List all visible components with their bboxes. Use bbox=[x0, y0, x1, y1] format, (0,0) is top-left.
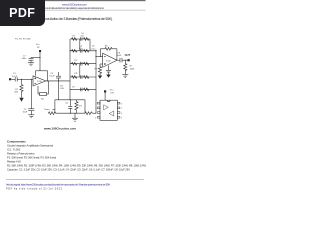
svg-text:R8: R8 bbox=[105, 45, 109, 47]
pin 3 bbox=[97, 112, 100, 114]
svg-text:www.100Circuitos.com: www.100Circuitos.com bbox=[62, 2, 88, 6]
capacitor row3 bbox=[79, 62, 81, 66]
ground under loop bbox=[74, 113, 76, 118]
svg-text:P2: P2 bbox=[75, 60, 78, 62]
supply pad IC bbox=[104, 90, 106, 92]
svg-text:Vcc:: Vcc: bbox=[36, 44, 40, 46]
right bus bbox=[95, 50, 97, 113]
svg-text:100K: 100K bbox=[130, 68, 135, 70]
svg-text:C4: C4 bbox=[81, 33, 85, 35]
svg-text:8: 8 bbox=[121, 103, 122, 105]
svg-text:C6: C6 bbox=[65, 103, 69, 105]
footer rule bbox=[6, 179, 144, 181]
svg-text:22n: 22n bbox=[79, 48, 83, 50]
resistor row4 left bbox=[72, 76, 78, 79]
IC body TL082 DIP-8 bbox=[100, 100, 117, 120]
svg-text:2: 2 bbox=[95, 108, 96, 110]
op-amp U1B bbox=[103, 53, 117, 67]
svg-text:Resistor ¼W:: Resistor ¼W: bbox=[7, 159, 21, 163]
svg-text:P1: P1 bbox=[73, 35, 76, 37]
ground under C7 bbox=[28, 62, 34, 64]
svg-text:C2: C2 bbox=[24, 109, 28, 111]
capacitor C4 bbox=[79, 37, 81, 41]
wire bus to inverting input bbox=[96, 56, 103, 58]
resistor row2 right bbox=[84, 49, 90, 52]
node row2 bbox=[69, 50, 70, 51]
svg-text:Circuito Integrado: Amplificad: Circuito Integrado: Amplificador Operaci… bbox=[7, 143, 53, 147]
pin 4 bbox=[97, 116, 100, 118]
non-inverting input wire bbox=[100, 63, 103, 65]
pin 1 bbox=[97, 102, 100, 104]
loop right vertical bbox=[84, 100, 86, 113]
loop left vertical bbox=[54, 100, 56, 113]
wire down to C2 bbox=[30, 79, 32, 109]
svg-text:P1: 50K lineal; P2: 50K lineal: P1: 50K lineal; P2: 50K lineal; P3: 50K … bbox=[7, 155, 56, 159]
row4 wire bbox=[70, 76, 96, 78]
svg-text:6: 6 bbox=[121, 113, 122, 115]
resistor row1 left bbox=[72, 38, 78, 41]
svg-text:OUT: OUT bbox=[125, 53, 131, 57]
node R1 bbox=[21, 79, 22, 80]
wire pad to IC bbox=[104, 93, 106, 101]
capacitor row4 bbox=[79, 75, 81, 79]
svg-text:Artículo original: https://www: Artículo original: https://www.100circui… bbox=[6, 183, 110, 186]
header top rule bbox=[5, 0, 146, 2]
resistor R9 bbox=[98, 67, 101, 74]
output node U1A bbox=[47, 80, 48, 81]
svg-text:Resistor o Potenciómetro:: Resistor o Potenciómetro: bbox=[7, 151, 35, 155]
svg-text:IC1:B: IC1:B bbox=[106, 60, 111, 62]
svg-text:C8: C8 bbox=[117, 52, 121, 54]
node C2 bbox=[31, 79, 32, 80]
ground under R7 bbox=[124, 72, 126, 75]
pin 2 bbox=[97, 107, 100, 109]
resistor R7 bbox=[124, 60, 126, 63]
row1 wire bbox=[70, 38, 90, 40]
svg-text:Vcc:: Vcc: bbox=[110, 90, 114, 92]
potentiometer P2 in loop bbox=[75, 102, 78, 112]
capacitor C3 0,1uF bbox=[58, 72, 60, 76]
svg-text:4: 4 bbox=[95, 118, 96, 120]
svg-text:P1, P2, P3: 50K: P1, P2, P3: 50K bbox=[15, 39, 31, 41]
svg-text:Los circuitos electrónicos más: Los circuitos electrónicos más variados … bbox=[45, 7, 105, 10]
svg-text:0,1u: 0,1u bbox=[91, 48, 96, 50]
svg-text:1: 1 bbox=[95, 103, 96, 105]
resistor row2 left bbox=[72, 49, 78, 52]
pin 7 bbox=[117, 107, 120, 109]
loop bottom wire with R5 bbox=[47, 112, 50, 114]
svg-text:C1: C1 bbox=[13, 73, 17, 75]
svg-text:10uF: 10uF bbox=[23, 112, 28, 114]
feedback resistor R4 box bbox=[38, 93, 40, 95]
feedback box U1B bbox=[100, 48, 105, 50]
svg-text:R7: R7 bbox=[130, 66, 134, 68]
output wire U1B bbox=[117, 59, 120, 61]
node loop top bbox=[70, 99, 71, 100]
svg-text:C9: C9 bbox=[72, 86, 76, 88]
input pad IN bbox=[9, 78, 11, 80]
capacitor C10 under op-amp bbox=[108, 66, 110, 71]
svg-text:Tierra: Tierra bbox=[44, 108, 50, 111]
svg-text:2,2uF: 2,2uF bbox=[12, 76, 18, 78]
ground arrow under R9 bbox=[99, 74, 101, 76]
wire to op-amp bbox=[17, 78, 33, 80]
svg-text:PDF ha sido creado el 21-Jul-2: PDF ha sido creado el 21-Jul-2022 bbox=[6, 187, 63, 190]
svg-text:3: 3 bbox=[95, 113, 96, 115]
capacitor C8 bbox=[119, 58, 121, 63]
pin 5 bbox=[117, 116, 120, 118]
wire to tone network bbox=[46, 80, 70, 82]
PDF badge bbox=[0, 0, 45, 26]
pin 8 bbox=[117, 102, 120, 104]
svg-text:R4: R4 bbox=[41, 99, 45, 101]
svg-text:10K: 10K bbox=[60, 88, 64, 90]
resistor row5 right bbox=[84, 88, 90, 91]
svg-text:R1: R1 bbox=[15, 89, 19, 91]
capacitor C1 2,2uF bbox=[14, 77, 16, 81]
capacitor C6 in loop bbox=[69, 100, 71, 107]
resistor row3 left bbox=[72, 62, 78, 65]
capacitor C2 10uF bbox=[28, 108, 34, 110]
wiper drop row1 bbox=[79, 39, 81, 51]
wire branch to C7 bbox=[31, 57, 40, 59]
op-amp B inside IC bbox=[109, 111, 114, 116]
header bottom rule bbox=[5, 9, 146, 11]
svg-text:56K: 56K bbox=[14, 92, 18, 94]
svg-text:100n: 100n bbox=[22, 58, 27, 60]
feedback wire U1A bbox=[47, 71, 49, 81]
capacitor C7 100n bbox=[30, 57, 32, 60]
wire down to R1 bbox=[21, 79, 23, 84]
capacitor row5 bbox=[79, 88, 81, 92]
op-amp A inside IC bbox=[104, 105, 109, 110]
svg-text:0,1uF: 0,1uF bbox=[49, 76, 55, 78]
wire to OUT bbox=[122, 59, 128, 61]
resistor row4 right bbox=[84, 76, 90, 79]
svg-text:9V: 9V bbox=[37, 47, 40, 49]
svg-text:±9V: ±9V bbox=[110, 92, 114, 94]
svg-text:www.100Circuitos.com: www.100Circuitos.com bbox=[43, 126, 76, 130]
svg-text:Componentes: Componentes bbox=[7, 139, 26, 143]
wire C3 down to loop bbox=[58, 78, 60, 100]
ground under C2 bbox=[28, 114, 34, 116]
feedback loop bottom: top wire bbox=[55, 99, 85, 101]
Vcc supply pad bbox=[39, 50, 41, 52]
svg-text:R2: R2 bbox=[60, 85, 64, 87]
OUT pad bbox=[128, 59, 130, 61]
pin 6 bbox=[117, 112, 120, 114]
svg-text:Capacitor: C1: 2,2uF 25V; C2:: Capacitor: C1: 2,2uF 25V; C2: 10uF 25V; … bbox=[7, 167, 130, 171]
wire supply down bbox=[39, 52, 41, 71]
svg-text:C3: C3 bbox=[51, 73, 55, 75]
node output junction bbox=[58, 80, 59, 81]
node supply branch bbox=[39, 57, 40, 58]
svg-text:5: 5 bbox=[121, 118, 122, 120]
resistor row3 right bbox=[84, 62, 90, 65]
resistor R6 bottom right bbox=[85, 112, 92, 115]
op-amp U1A bbox=[33, 76, 46, 86]
right drop row1 bbox=[89, 39, 91, 51]
svg-text:P2: P2 bbox=[79, 105, 82, 107]
svg-text:P3: P3 bbox=[75, 73, 78, 75]
svg-text:7: 7 bbox=[121, 108, 122, 110]
svg-text:R9: R9 bbox=[95, 68, 99, 70]
capacitor C5 bbox=[79, 49, 81, 53]
resistor R1 56K bbox=[20, 85, 23, 93]
ground arrow under R1 bbox=[21, 93, 23, 98]
svg-text:10uF: 10uF bbox=[117, 55, 122, 57]
svg-text:IC1: TL082: IC1: TL082 bbox=[7, 147, 21, 151]
row5 wire bbox=[70, 88, 96, 90]
svg-text:R1: 56K 1/4W; R2: 100R 1/4W; R: R1: 56K 1/4W; R2: 100R 1/4W; R3: 56K 1/4… bbox=[7, 163, 146, 167]
left bus bbox=[69, 39, 71, 100]
wiper drop row3 bbox=[79, 64, 81, 77]
resistor row1 right bbox=[84, 38, 90, 41]
svg-text:C6: C6 bbox=[92, 46, 96, 48]
row3 wire bbox=[70, 63, 96, 65]
wire input bbox=[11, 78, 15, 80]
row2 wire bbox=[70, 50, 96, 52]
